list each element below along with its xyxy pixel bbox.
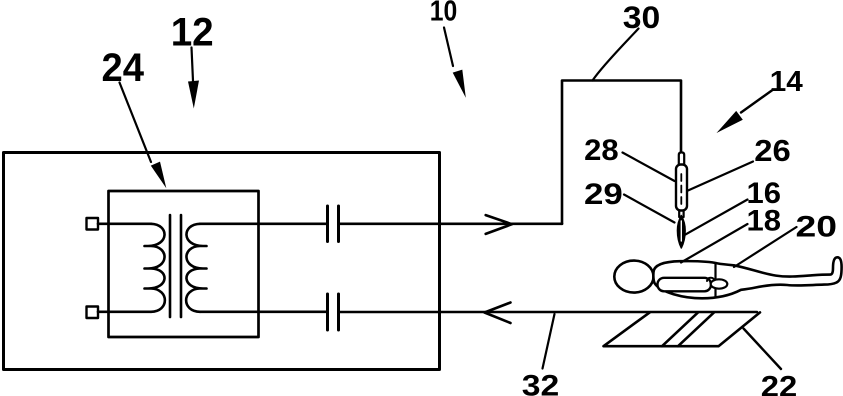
arrowhead 14 xyxy=(717,111,743,133)
wire primary bottom lead xyxy=(98,310,151,313)
leader 28 xyxy=(623,153,675,182)
leader 32 xyxy=(543,314,555,369)
blade electrode 16 xyxy=(677,216,685,249)
svg-text:18: 18 xyxy=(747,205,782,238)
leader 16 xyxy=(684,200,748,236)
arrowhead 24 xyxy=(151,162,167,189)
arrowhead 12 xyxy=(188,81,199,109)
return pad 22 xyxy=(604,312,761,346)
wire secondary bottom to capacitor xyxy=(200,310,327,313)
wire bottom return 32 xyxy=(339,311,758,314)
transformer secondary winding xyxy=(186,224,206,312)
pencil body 26 xyxy=(676,165,687,211)
leader 18 xyxy=(681,224,748,263)
terminal square bottom xyxy=(87,307,99,319)
wire top output xyxy=(339,223,563,226)
wire primary top lead xyxy=(98,223,151,226)
transformer box 24 xyxy=(109,191,259,337)
generator box 12 xyxy=(4,153,440,370)
svg-text:29: 29 xyxy=(584,178,623,211)
patient body outline xyxy=(653,257,841,298)
leader 26 xyxy=(688,162,753,191)
wire secondary top to capacitor xyxy=(200,223,327,226)
leader 14 arrow xyxy=(741,90,773,113)
patient hand xyxy=(711,279,728,288)
svg-text:22: 22 xyxy=(761,370,798,396)
svg-text:10: 10 xyxy=(430,0,458,28)
leader 22 xyxy=(744,329,782,370)
svg-text:12: 12 xyxy=(171,11,214,55)
svg-text:32: 32 xyxy=(522,371,560,396)
leader 20 xyxy=(734,227,797,267)
capacitor top C1 xyxy=(328,206,339,242)
transformer core xyxy=(170,215,181,317)
svg-text:26: 26 xyxy=(754,134,791,168)
svg-text:20: 20 xyxy=(796,211,838,244)
svg-text:30: 30 xyxy=(623,0,661,35)
svg-text:14: 14 xyxy=(770,66,803,98)
wire loop 30 xyxy=(562,81,681,224)
patient arm xyxy=(658,278,712,292)
arrowhead 10 xyxy=(453,70,466,98)
svg-text:28: 28 xyxy=(584,134,619,167)
patient head xyxy=(614,261,653,293)
pencil neck 28 xyxy=(679,152,684,164)
transformer primary winding xyxy=(145,224,165,312)
leader 24 line xyxy=(120,83,152,163)
svg-text:24: 24 xyxy=(102,46,145,90)
arrowhead right on top wire xyxy=(486,215,512,234)
leader 10 arrow xyxy=(444,28,453,67)
leader 12 arrow xyxy=(192,48,194,82)
terminal square top xyxy=(87,218,99,230)
arrowhead left on bottom wire xyxy=(485,303,511,324)
patient chest line xyxy=(714,263,716,297)
pencil dashed line xyxy=(680,174,682,206)
leader 29 xyxy=(624,195,675,223)
patient thumb xyxy=(707,278,714,281)
capacitor bottom C2 xyxy=(328,294,339,330)
pencil lower nub 29 xyxy=(679,211,683,218)
leader 30 xyxy=(593,29,639,81)
